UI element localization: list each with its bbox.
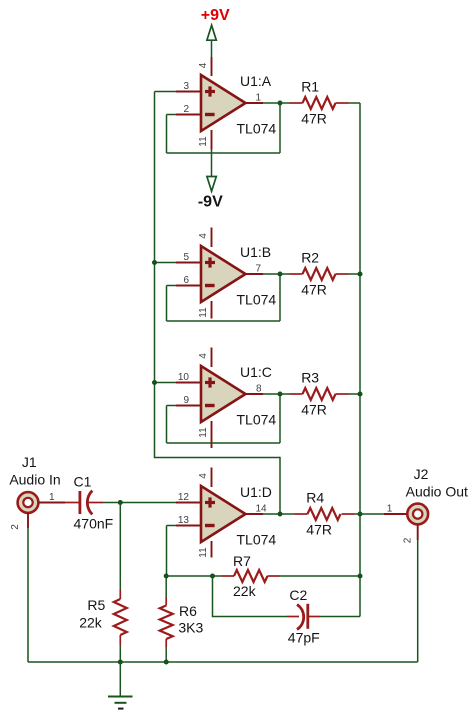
node (U1:C output junction) xyxy=(278,392,283,397)
svg-text:5: 5 xyxy=(183,252,189,263)
op-amp U1:D pin 14 stub (output) xyxy=(245,513,264,515)
op-amp U1:B pin 6 stub (- input) xyxy=(176,285,202,287)
op-amp U1:C pin 4 stub xyxy=(211,348,213,368)
connector J1 pin 1 stub xyxy=(38,502,65,504)
svg-text:R5: R5 xyxy=(87,597,105,613)
power +9V arrow xyxy=(207,25,216,40)
op-amp U1:A pin 4 stub xyxy=(211,57,213,76)
svg-text:13: 13 xyxy=(178,515,190,526)
svg-text:U1:A: U1:A xyxy=(240,73,272,89)
op-amp U1:B xyxy=(201,246,246,302)
svg-text:9: 9 xyxy=(183,395,189,406)
svg-text:U1:B: U1:B xyxy=(240,244,271,260)
resistor R2 xyxy=(290,268,349,280)
power -9V arrow xyxy=(207,177,216,192)
svg-text:11: 11 xyxy=(198,136,209,147)
op-amp U1:C pin 9 stub (- input) xyxy=(176,405,202,407)
svg-text:+9V: +9V xyxy=(201,7,230,24)
resistor R1 xyxy=(290,97,349,109)
svg-text:10: 10 xyxy=(178,372,190,383)
svg-text:R6: R6 xyxy=(179,603,197,619)
wire (R7 to rail) xyxy=(280,575,360,577)
op-amp U1:C xyxy=(201,366,246,422)
node (R5 / ground rail) xyxy=(118,660,123,665)
node (rail / R3) xyxy=(358,392,363,397)
wire (input node down to R5) xyxy=(119,503,121,591)
svg-text:U1:D: U1:D xyxy=(240,484,272,500)
resistor R5 xyxy=(114,590,127,645)
svg-text:1: 1 xyxy=(255,93,261,104)
op-amp U1:D pin 12 stub (+ input) xyxy=(176,502,202,504)
svg-text:8: 8 xyxy=(256,384,262,395)
wire (U1:B loop right vertical) xyxy=(279,274,281,321)
wire (C2 branch down) xyxy=(212,576,214,617)
op-amp U1:A xyxy=(201,75,246,131)
connector J1 xyxy=(18,492,39,513)
svg-text:14: 14 xyxy=(256,504,268,515)
resistor R6 xyxy=(160,597,173,647)
resistor R4 xyxy=(295,508,355,520)
svg-text:R1: R1 xyxy=(301,79,319,95)
svg-text:12: 12 xyxy=(178,492,190,503)
svg-text:3K3: 3K3 xyxy=(178,620,203,636)
svg-text:47R: 47R xyxy=(301,110,327,126)
node (pin13 / R7 / R6) xyxy=(164,574,169,579)
wire (R6 to ground rail) xyxy=(165,647,167,662)
node (U1:D output / rail jog) xyxy=(278,512,283,517)
wire (R2 to output rail) xyxy=(349,273,361,275)
capacitor C2 xyxy=(287,604,320,630)
node (rail / pin 10) xyxy=(152,380,157,385)
wire (J2 pin 2 down) xyxy=(417,540,419,662)
svg-text:Audio In: Audio In xyxy=(9,472,60,488)
op-amp U1:C pin 10 stub (+ input) xyxy=(176,382,202,384)
wire (pin13 node down to R6) xyxy=(165,576,167,597)
op-amp U1:D pin 11 stub xyxy=(211,541,213,558)
wire (+9V to U1:A pin4) xyxy=(211,40,213,57)
node (input / R5) xyxy=(118,500,123,505)
wire (pin 13 down) xyxy=(166,526,168,577)
svg-text:R4: R4 xyxy=(306,490,324,506)
svg-text:2: 2 xyxy=(403,537,414,543)
svg-text:22k: 22k xyxy=(233,583,257,599)
svg-text:TL074: TL074 xyxy=(237,121,277,137)
wire (output row R3 left) xyxy=(263,393,290,395)
svg-text:6: 6 xyxy=(183,275,189,286)
svg-text:4: 4 xyxy=(198,62,209,68)
wire (output row R1 left) xyxy=(263,102,290,104)
svg-text:4: 4 xyxy=(198,233,209,239)
svg-text:R3: R3 xyxy=(301,370,319,386)
op-amp U1:B pin 11 stub xyxy=(211,301,213,319)
op-amp U1:A pin 2 stub (- input) xyxy=(176,114,202,116)
svg-text:2: 2 xyxy=(10,524,21,530)
wire (U1:C loop left vertical) xyxy=(166,406,168,444)
wire (U1:B loop bottom) xyxy=(167,320,281,322)
svg-text:47R: 47R xyxy=(301,281,327,297)
op-amp U1:A pin 11 stub xyxy=(211,130,213,150)
svg-text:R7: R7 xyxy=(233,553,251,569)
connector J2 pin 2 stub xyxy=(417,525,419,541)
svg-text:47pF: 47pF xyxy=(288,629,320,645)
op-amp U1:D pin 4 stub xyxy=(211,468,213,488)
svg-text:22k: 22k xyxy=(79,615,103,631)
svg-text:J2: J2 xyxy=(414,466,429,482)
svg-text:C2: C2 xyxy=(289,587,307,603)
svg-text:1: 1 xyxy=(387,504,393,515)
op-amp U1:A pin 3 stub (+ input) xyxy=(176,91,202,93)
svg-text:C1: C1 xyxy=(74,473,92,489)
wire (U1:C loop bottom) xyxy=(167,442,281,444)
svg-text:4: 4 xyxy=(198,473,209,479)
wire (R3 to output rail) xyxy=(349,393,361,395)
wire (bottom ground rail) xyxy=(28,661,418,663)
node (U1:B output junction) xyxy=(278,272,283,277)
wire (rail jog down to U1:D output) xyxy=(279,457,281,514)
op-amp U1:D xyxy=(201,486,246,542)
wire (U1:D output row) xyxy=(263,513,295,515)
wire (U1:A loop left vertical) xyxy=(166,115,168,154)
wire (R4 to rail) xyxy=(355,513,361,515)
node (R6 / ground rail) xyxy=(164,660,169,665)
svg-text:11: 11 xyxy=(198,547,209,558)
op-amp U1:B pin 4 stub xyxy=(211,228,213,248)
svg-text:11: 11 xyxy=(198,307,209,318)
svg-text:J1: J1 xyxy=(22,454,37,470)
wire (U1:B loop left vertical) xyxy=(166,286,168,322)
wire (U1:C pin- to loop) xyxy=(167,405,177,407)
node (rail / R2) xyxy=(358,272,363,277)
svg-text:3: 3 xyxy=(183,81,189,92)
wire (rail to J2 pin 1) xyxy=(360,513,384,515)
node (rail / pin 5) xyxy=(152,260,157,265)
op-amp U1:D pin 13 stub (- input) xyxy=(176,525,202,527)
wire (J1 pin 2 down) xyxy=(27,528,29,662)
wire (pin 5) xyxy=(155,262,177,264)
node (rail / R4 / J2) xyxy=(358,512,363,517)
svg-text:Audio Out: Audio Out xyxy=(406,483,468,499)
wire (pin 10) xyxy=(155,382,177,384)
wire (branch to C2) xyxy=(212,616,287,618)
op-amp U1:C pin 8 stub (output) xyxy=(245,393,264,395)
svg-text:U1:C: U1:C xyxy=(240,364,272,380)
svg-text:470nF: 470nF xyxy=(74,516,114,532)
svg-text:TL074: TL074 xyxy=(237,292,277,308)
wire (C2 to rail) xyxy=(320,616,360,618)
wire (U1:A loop right vertical) xyxy=(279,103,281,153)
wire (U1:C loop right vertical) xyxy=(279,394,281,443)
resistor R3 xyxy=(290,388,349,400)
svg-text:TL074: TL074 xyxy=(237,412,277,428)
wire (R5 to ground rail) xyxy=(119,645,121,662)
svg-text:47R: 47R xyxy=(301,401,327,417)
wire (pin 3) xyxy=(155,91,177,93)
svg-text:-9V: -9V xyxy=(198,193,223,210)
wire (left rail vertical) xyxy=(154,92,156,458)
svg-text:47R: 47R xyxy=(306,521,332,537)
wire (node to R7) xyxy=(166,575,221,577)
svg-text:TL074: TL074 xyxy=(237,532,277,548)
capacitor C1 xyxy=(65,491,103,515)
wire (rail jog horizontal) xyxy=(154,457,280,459)
wire (U1:A loop bottom) xyxy=(167,152,281,154)
node (U1:A output junction) xyxy=(278,101,283,106)
connector J1 pin 2 stub xyxy=(27,513,29,529)
wire (output row R2 left) xyxy=(263,273,290,275)
svg-text:R2: R2 xyxy=(301,250,319,266)
op-amp U1:B pin 5 stub (+ input) xyxy=(176,262,202,264)
op-amp U1:A pin 1 stub (output) xyxy=(245,102,264,104)
connector J2 pin 1 stub xyxy=(384,513,408,515)
svg-text:11: 11 xyxy=(198,427,209,438)
ground xyxy=(108,662,133,709)
node (rail / R7) xyxy=(358,574,363,579)
wire (output rail vertical) xyxy=(359,103,361,617)
wire (U1:A pin- to loop) xyxy=(167,114,177,116)
op-amp U1:B pin 7 stub (output) xyxy=(245,273,264,275)
connector J2 xyxy=(407,504,428,525)
node (R7 row / C2 branch) xyxy=(210,574,215,579)
resistor R7 xyxy=(222,570,281,582)
wire (R1 to output rail) xyxy=(349,102,361,104)
wire (C1 to U1:D pin 12) xyxy=(103,502,176,504)
svg-text:4: 4 xyxy=(198,353,209,359)
wire (U1:D pin 13 to node) xyxy=(167,525,177,527)
svg-text:1: 1 xyxy=(49,492,55,503)
wire (U1:B pin- to loop) xyxy=(167,285,177,287)
svg-text:2: 2 xyxy=(183,104,189,115)
wire (U1:A pin11 to -9V) xyxy=(211,150,213,177)
op-amp U1:C pin 11 stub xyxy=(211,421,213,448)
svg-text:7: 7 xyxy=(255,264,261,275)
